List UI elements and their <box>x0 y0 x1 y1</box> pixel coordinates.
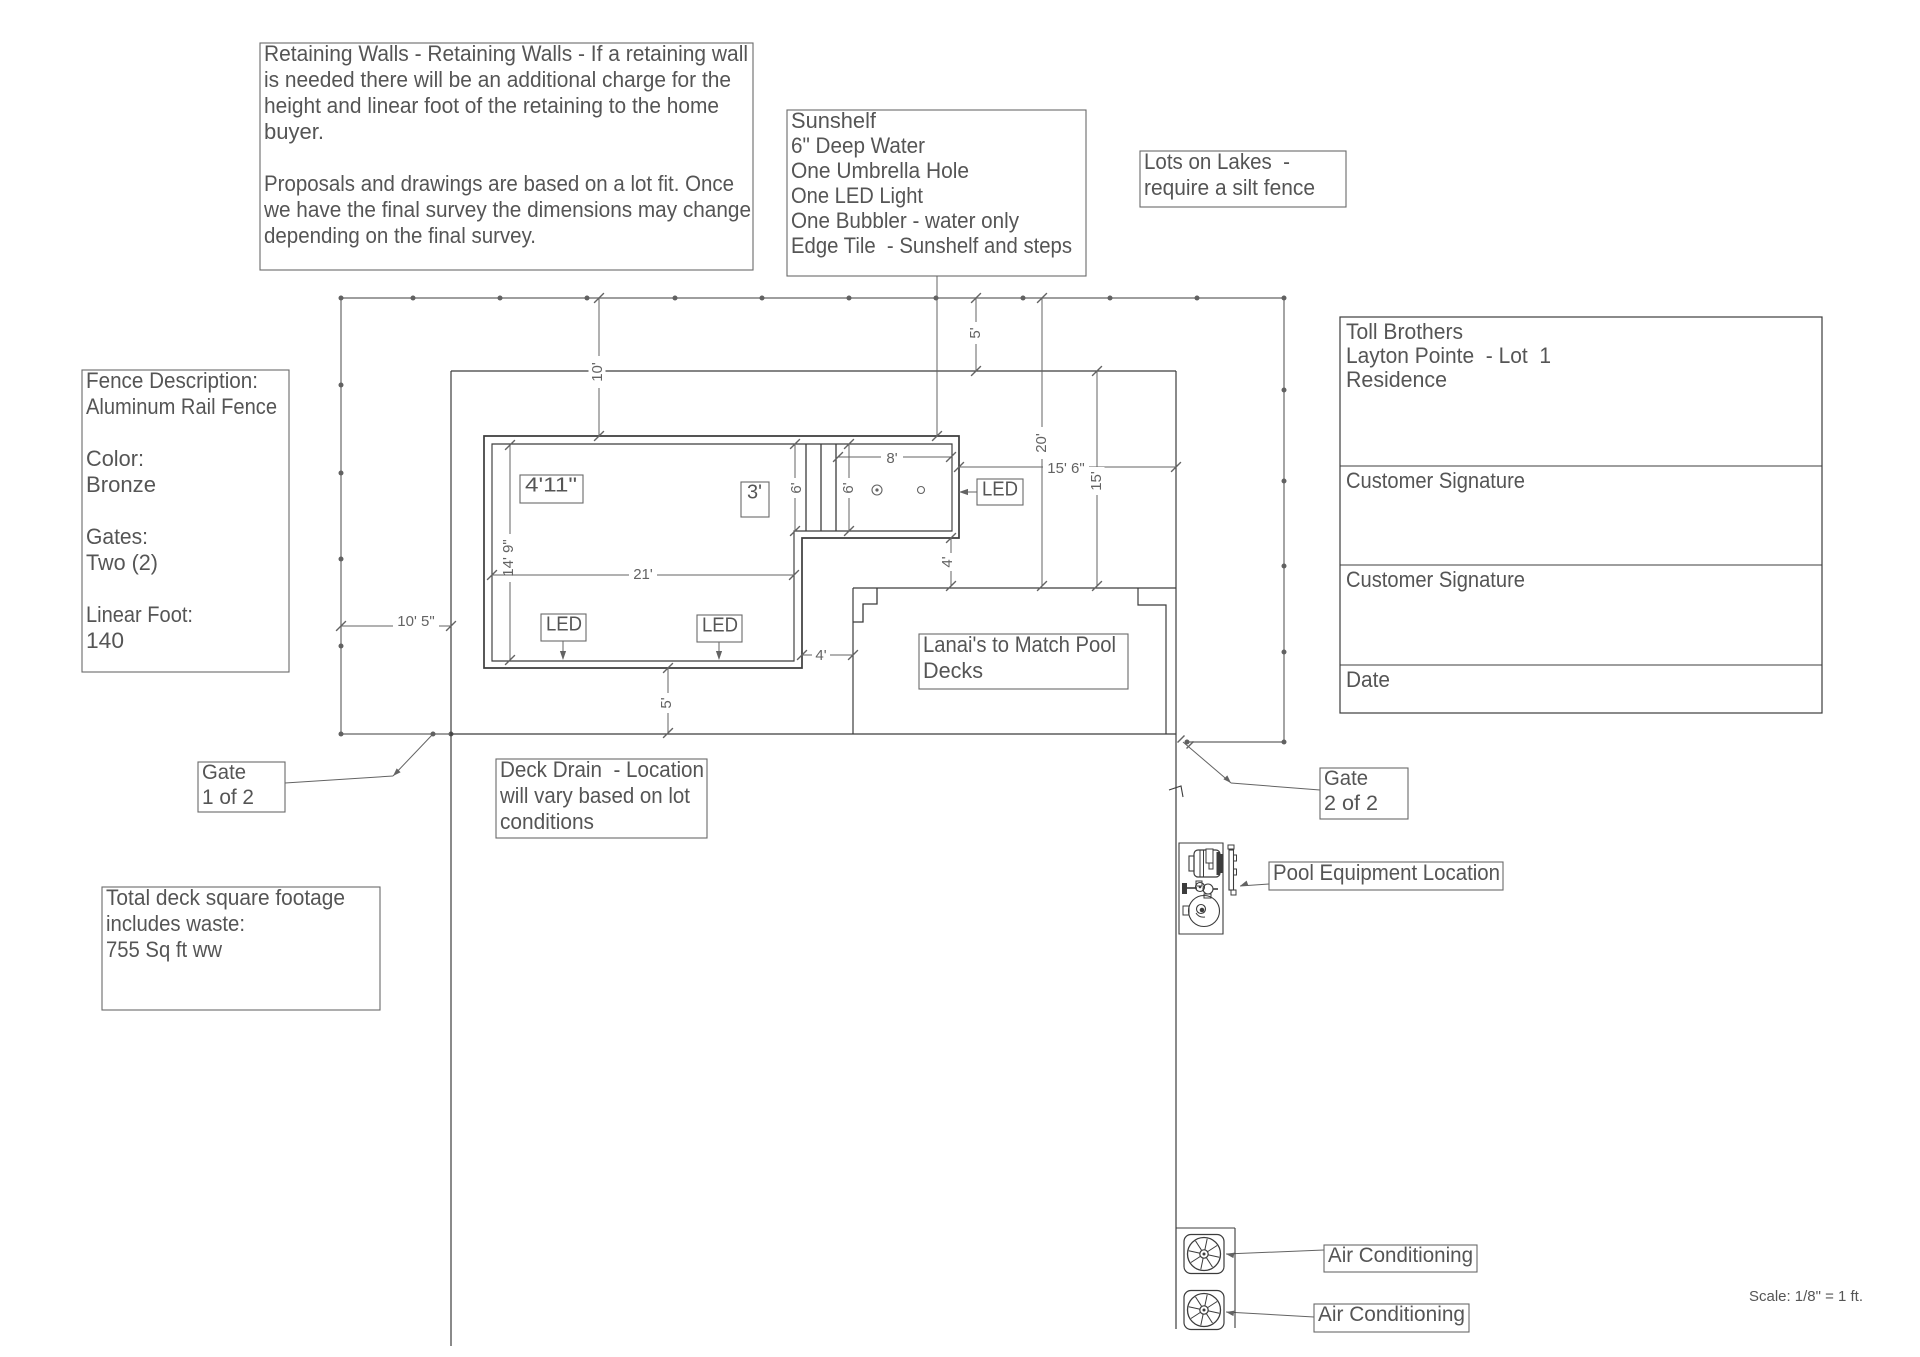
svg-text:is needed there will be an add: is needed there will be an additional ch… <box>264 67 731 92</box>
svg-text:conditions: conditions <box>500 809 594 834</box>
svg-text:Bronze: Bronze <box>86 472 156 497</box>
svg-text:10' 5": 10' 5" <box>397 613 434 630</box>
svg-text:3': 3' <box>747 481 762 503</box>
svg-text:14' 9": 14' 9" <box>500 539 517 576</box>
svg-text:5': 5' <box>967 327 984 338</box>
svg-text:Air Conditioning: Air Conditioning <box>1328 1244 1473 1267</box>
svg-text:Lots on Lakes -: Lots on Lakes - <box>1144 149 1290 174</box>
svg-text:6" Deep Water: 6" Deep Water <box>791 133 925 158</box>
svg-text:4'11": 4'11" <box>525 474 577 496</box>
svg-text:6': 6' <box>788 482 805 493</box>
svg-text:will vary based on lot: will vary based on lot <box>499 783 690 808</box>
svg-text:140: 140 <box>86 628 124 653</box>
svg-text:10': 10' <box>589 362 606 382</box>
svg-text:Pool Equipment Location: Pool Equipment Location <box>1273 860 1500 885</box>
svg-text:One Bubbler - water only: One Bubbler - water only <box>791 208 1019 233</box>
svg-text:Gate: Gate <box>1324 767 1368 790</box>
svg-text:21': 21' <box>633 566 653 583</box>
svg-text:15': 15' <box>1088 471 1105 491</box>
svg-text:Customer Signature: Customer Signature <box>1346 567 1525 592</box>
svg-text:Decks: Decks <box>923 658 983 683</box>
svg-text:6': 6' <box>840 482 857 493</box>
svg-text:8': 8' <box>886 450 897 467</box>
svg-text:Air Conditioning: Air Conditioning <box>1318 1303 1465 1326</box>
svg-text:we have the final survey the d: we have the final survey the dimensions … <box>263 197 751 222</box>
svg-text:includes waste:: includes waste: <box>106 911 245 936</box>
svg-text:5': 5' <box>658 697 675 708</box>
svg-text:LED: LED <box>982 478 1018 500</box>
svg-text:20': 20' <box>1033 433 1050 453</box>
svg-text:Sunshelf: Sunshelf <box>791 108 877 133</box>
svg-text:Gates:: Gates: <box>86 524 148 549</box>
svg-text:Fence Description:: Fence Description: <box>86 368 258 393</box>
svg-text:Gate: Gate <box>202 761 246 784</box>
svg-text:Two (2): Two (2) <box>86 550 158 575</box>
svg-text:1 of 2: 1 of 2 <box>202 786 254 809</box>
svg-text:Scale: 1/8" = 1 ft.: Scale: 1/8" = 1 ft. <box>1749 1288 1863 1305</box>
svg-text:depending on the final survey.: depending on the final survey. <box>264 223 536 248</box>
svg-text:Toll Brothers: Toll Brothers <box>1346 319 1463 344</box>
svg-text:Edge Tile - Sunshelf and step: Edge Tile - Sunshelf and steps <box>791 233 1072 258</box>
svg-text:One LED Light: One LED Light <box>791 183 923 208</box>
svg-text:LED: LED <box>702 614 738 636</box>
svg-text:Proposals and drawings are bas: Proposals and drawings are based on a lo… <box>264 171 734 196</box>
svg-text:15' 6": 15' 6" <box>1047 460 1084 477</box>
svg-text:Lanai's to Match Pool: Lanai's to Match Pool <box>923 632 1116 657</box>
svg-text:Customer Signature: Customer Signature <box>1346 468 1525 493</box>
svg-text:Aluminum Rail Fence: Aluminum Rail Fence <box>86 394 277 419</box>
svg-text:require a silt fence: require a silt fence <box>1144 175 1315 200</box>
svg-text:Deck Drain - Location: Deck Drain - Location <box>500 757 704 782</box>
svg-text:2 of 2: 2 of 2 <box>1324 792 1378 815</box>
svg-text:buyer.: buyer. <box>264 119 324 144</box>
svg-text:Linear Foot:: Linear Foot: <box>86 602 193 627</box>
svg-text:One Umbrella Hole: One Umbrella Hole <box>791 158 969 183</box>
svg-text:Residence: Residence <box>1346 367 1447 392</box>
svg-text:4': 4' <box>939 556 956 567</box>
svg-text:LED: LED <box>546 613 582 635</box>
svg-text:Color:: Color: <box>86 446 144 471</box>
svg-text:height and linear foot of the: height and linear foot of the retaining … <box>264 93 719 118</box>
svg-text:755 Sq ft ww: 755 Sq ft ww <box>106 937 222 962</box>
svg-text:Retaining Walls - Retaining Wa: Retaining Walls - Retaining Walls - If a… <box>264 41 748 66</box>
svg-text:Date: Date <box>1346 667 1390 692</box>
svg-text:4': 4' <box>815 647 826 664</box>
svg-text:Total deck square footage: Total deck square footage <box>106 885 345 910</box>
svg-text:Layton Pointe - Lot 1: Layton Pointe - Lot 1 <box>1346 343 1551 368</box>
